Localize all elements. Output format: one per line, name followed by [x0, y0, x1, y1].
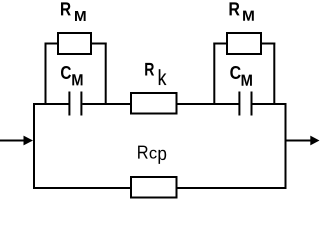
label C (right C_M): [230, 66, 240, 79]
wire bottom rail seg1: [33, 187, 131, 189]
label C (left C_M): [61, 66, 71, 79]
wire RM-left left stub: [45, 43, 58, 45]
label k subscript (R_k): [159, 69, 167, 85]
label M subscript (left C_M): [72, 74, 82, 85]
capacitor C_M right, plate 1: [238, 92, 240, 116]
resistor Rcp box: [131, 177, 177, 198]
wire RM-left right drop: [105, 43, 107, 106]
output arrow head: [310, 136, 319, 146]
label M subscript (left R_M): [75, 11, 86, 21]
wire top rail seg3: [177, 103, 239, 105]
wire RM-left left drop: [45, 43, 47, 106]
label R (R_k): [145, 63, 154, 76]
label R (right R_M): [230, 2, 240, 15]
resistor R_M right box: [227, 33, 261, 54]
wire right vertical rail: [285, 103, 287, 189]
wire RM-right left stub: [213, 43, 227, 45]
wire top rail seg2: [82, 103, 131, 105]
label c (Rcp): [150, 150, 157, 159]
resistor R_M left box: [58, 33, 91, 54]
wire left vertical rail: [33, 103, 35, 189]
resistor R_k box: [131, 93, 177, 114]
wire top rail seg4: [252, 103, 286, 105]
label p (Rcp): [158, 150, 166, 164]
wire RM-right right drop: [273, 43, 275, 106]
wire input lead: [0, 140, 25, 142]
capacitor C_M left, plate 1: [68, 92, 70, 116]
capacitor C_M left, plate 2: [80, 92, 82, 116]
wire RM-right left drop: [213, 43, 215, 106]
label R (Rcp): [138, 146, 148, 159]
capacitor C_M right, plate 2: [251, 92, 253, 116]
label M subscript (right R_M): [243, 11, 254, 21]
wire top rail seg1: [33, 103, 69, 105]
label R (left R_M): [61, 2, 71, 15]
wire bottom rail seg2: [177, 187, 287, 189]
wire RM-left right stub: [91, 43, 107, 45]
input arrow head: [24, 136, 34, 146]
label M subscript (right C_M): [242, 75, 252, 86]
wire RM-right right stub: [261, 43, 275, 45]
wire output lead: [286, 140, 313, 142]
